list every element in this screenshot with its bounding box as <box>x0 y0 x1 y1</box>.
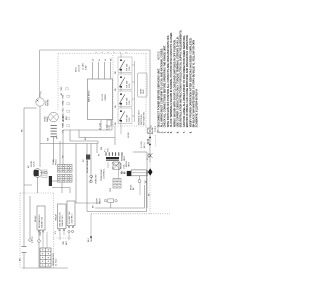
svg-text:SWITCHES: SWITCHES <box>141 114 143 125</box>
svg-text:SENS: SENS <box>99 198 101 204</box>
svg-text:JTM 4: JTM 4 <box>40 229 42 236</box>
svg-text:DOOR SW BK: DOOR SW BK <box>87 159 89 173</box>
svg-text:4.: 4. <box>167 131 170 133</box>
svg-text:INF HEAT SW: INF HEAT SW <box>143 112 146 125</box>
svg-text:M: M <box>113 167 115 169</box>
svg-text:UNIT: UNIT <box>143 89 145 94</box>
svg-text:LTS: LTS <box>63 109 65 113</box>
svg-text:GRD: GRD <box>63 123 65 128</box>
svg-text:30A BK 240: 30A BK 240 <box>61 215 64 227</box>
svg-text:1.: 1. <box>158 131 160 133</box>
svg-text:TIMER: TIMER <box>105 94 107 101</box>
svg-text:SW BK: SW BK <box>48 99 50 106</box>
svg-text:2.: 2. <box>162 131 164 133</box>
svg-text:OVEN TEMP: OVEN TEMP <box>101 169 103 181</box>
svg-text:REL BAKE NO: REL BAKE NO <box>38 214 41 228</box>
svg-text:N BK: N BK <box>85 65 87 70</box>
svg-text:RELAY: RELAY <box>54 213 57 220</box>
svg-text:7.: 7. <box>184 131 186 133</box>
svg-text:L1 N L2: L1 N L2 <box>56 258 58 266</box>
svg-text:BK 14: BK 14 <box>144 142 146 148</box>
svg-text:6.: 6. <box>178 131 180 133</box>
svg-text:F-1: F-1 <box>105 149 107 152</box>
svg-text:TOC: TOC <box>107 147 109 152</box>
svg-text:2: 2 <box>126 52 128 53</box>
svg-text:HI LIMIT SW: HI LIMIT SW <box>69 212 71 224</box>
svg-text:L1 240V: L1 240V <box>83 62 85 70</box>
svg-text:TERM BLOCK: TERM BLOCK <box>53 252 55 266</box>
svg-text:8 IN: 8 IN <box>129 100 131 104</box>
svg-text:3.: 3. <box>165 131 167 133</box>
svg-text:CLOCK: CLOCK <box>102 93 104 101</box>
svg-text:PLUG: PLUG <box>56 159 58 165</box>
svg-text:RELAY: RELAY <box>120 162 123 169</box>
svg-text:L2 RD: L2 RD <box>128 132 130 138</box>
svg-text:TBD: TBD <box>61 86 63 91</box>
svg-text:2: 2 <box>114 52 116 53</box>
svg-text:OVEN SW: OVEN SW <box>96 174 98 184</box>
svg-text:LAMP: LAMP <box>46 116 49 122</box>
svg-text:8 IN: 8 IN <box>129 117 131 121</box>
svg-text:UNIT: UNIT <box>129 161 131 167</box>
svg-text:8 IN: 8 IN <box>129 66 131 70</box>
svg-text:5.: 5. <box>171 131 173 133</box>
svg-text:P-1 RD: P-1 RD <box>141 141 143 148</box>
svg-text:SURF: SURF <box>141 88 143 94</box>
svg-text:SURFACE UNIT: SURFACE UNIT <box>137 110 140 125</box>
svg-text:UNIT: UNIT <box>124 155 126 161</box>
svg-text:LOCK: LOCK <box>34 161 36 167</box>
svg-text:BROIL: BROIL <box>126 160 128 167</box>
svg-text:B 204: B 204 <box>107 124 109 130</box>
svg-text:P-2 GY: P-2 GY <box>32 236 34 243</box>
svg-text:REL BROIL NO: REL BROIL NO <box>59 212 61 227</box>
svg-text:CLOCK: CLOCK <box>78 64 80 72</box>
svg-text:2: 2 <box>102 52 104 53</box>
svg-text:2: 2 <box>96 52 98 53</box>
svg-text:ELEC: ELEC <box>76 66 78 72</box>
svg-text:RELAY: RELAY <box>34 215 37 222</box>
svg-text:240V BK 2: 240V BK 2 <box>72 213 74 224</box>
svg-text:SCHEMATIC 8111P554-60 REV A: SCHEMATIC 8111P554-60 REV A <box>196 89 199 128</box>
svg-text:8 IN: 8 IN <box>129 83 131 87</box>
svg-text:NOTES:: NOTES: <box>157 51 160 60</box>
svg-text:2: 2 <box>108 52 110 53</box>
svg-text:49 1146: 49 1146 <box>100 122 102 130</box>
svg-text:BAKE BROIL: BAKE BROIL <box>87 89 90 102</box>
svg-text:30A BK 240: 30A BK 240 <box>41 216 44 228</box>
svg-text:FUS: FUS <box>63 116 65 121</box>
svg-text:SWT: SWT <box>63 100 65 106</box>
svg-text:2: 2 <box>120 52 122 53</box>
svg-text:8.: 8. <box>190 131 192 133</box>
svg-text:CONTROL: CONTROL <box>104 168 106 179</box>
